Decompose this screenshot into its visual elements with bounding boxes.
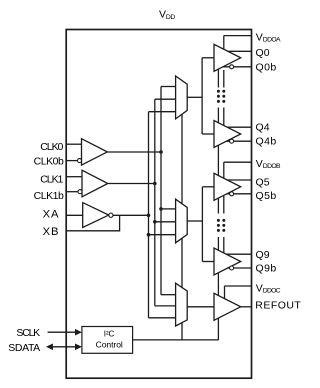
svg-text:Q4b: Q4b	[256, 136, 277, 148]
svg-text:I²C: I²C	[104, 329, 115, 338]
svg-text:XA: XA	[43, 208, 59, 220]
svg-text:Q9: Q9	[256, 249, 270, 261]
svg-text:DDOA: DDOA	[263, 37, 281, 44]
svg-text:V: V	[256, 158, 263, 170]
svg-text:SCLK: SCLK	[16, 327, 40, 339]
svg-text:DD: DD	[166, 14, 175, 21]
svg-text:CLK1: CLK1	[40, 174, 63, 186]
svg-text:Q9b: Q9b	[256, 262, 277, 274]
svg-text:Q0: Q0	[256, 47, 270, 59]
svg-text:V: V	[256, 283, 263, 295]
svg-text:CLK1b: CLK1b	[34, 190, 64, 202]
svg-text:V: V	[256, 31, 263, 43]
svg-text:Q5: Q5	[256, 176, 270, 188]
svg-text:XB: XB	[43, 226, 59, 238]
svg-text:CLK0: CLK0	[40, 141, 63, 153]
svg-text:REFOUT: REFOUT	[255, 299, 301, 311]
svg-text:DDOC: DDOC	[263, 288, 281, 295]
svg-text:DDOB: DDOB	[263, 163, 281, 170]
svg-text:Q5b: Q5b	[256, 190, 277, 202]
svg-text:Q4: Q4	[256, 122, 270, 134]
svg-text:Control: Control	[96, 340, 123, 350]
svg-text:SDATA: SDATA	[8, 342, 40, 354]
svg-text:CLK0b: CLK0b	[34, 155, 64, 167]
svg-text:Q0b: Q0b	[256, 62, 277, 74]
